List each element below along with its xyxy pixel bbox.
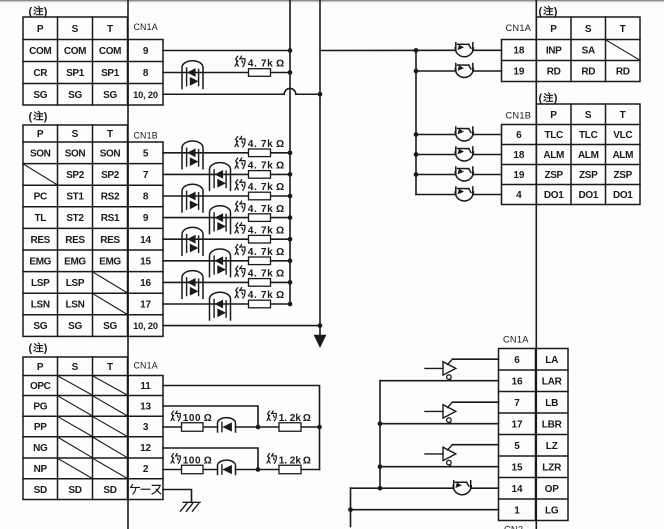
svg-text:SP2: SP2	[101, 170, 120, 181]
svg-text:CN1B: CN1B	[134, 131, 158, 141]
svg-text:RES: RES	[100, 235, 120, 246]
wire CN1A-3 PP row	[163, 426, 182, 428]
svg-text:(: (	[29, 6, 33, 18]
wire CN1B-15 input row	[163, 260, 249, 262]
bus wire: output common vertical (x=416)	[415, 50, 417, 194]
svg-text:SD: SD	[103, 485, 116, 496]
svg-text:4. 7k Ω: 4. 7k Ω	[248, 182, 285, 193]
connector table CN1A: signal-abbreviation table with pin numbers	[23, 343, 163, 500]
svg-text:15: 15	[140, 256, 151, 267]
junction node COM/bus290	[288, 48, 293, 53]
resistor approx 4.7k ohm (CN1B-17)	[249, 300, 271, 308]
junction node bus416/row19	[414, 69, 419, 74]
svg-text:2: 2	[143, 464, 149, 475]
svg-text:4: 4	[516, 190, 522, 201]
svg-text:OPC: OPC	[30, 381, 51, 392]
svg-text:CR: CR	[33, 68, 48, 79]
svg-text:14: 14	[511, 484, 523, 495]
wire CN1B-10,20 SG to bus320	[163, 325, 320, 327]
svg-text:COM: COM	[64, 46, 86, 57]
svg-text:1: 1	[514, 505, 520, 516]
junction node PG/PP row	[256, 425, 261, 430]
wire CN1A-9 COM to +bus	[163, 50, 290, 52]
svg-text:LG: LG	[545, 505, 559, 516]
junction node CN1B-16/bus290	[288, 280, 293, 285]
junction node SG/bus320	[318, 92, 323, 97]
svg-text:T: T	[107, 129, 113, 140]
junction node CN1B-15/bus290	[288, 258, 293, 263]
svg-text:4. 7k Ω: 4. 7k Ω	[248, 204, 285, 215]
svg-text:10, 20: 10, 20	[133, 90, 158, 100]
wire OP row	[351, 487, 454, 489]
svg-text:NP: NP	[34, 464, 48, 475]
svg-text:PG: PG	[33, 401, 47, 412]
svg-text:LSN: LSN	[66, 300, 85, 311]
svg-text:S: S	[72, 129, 79, 140]
wire CN1B-8 input row	[163, 195, 249, 197]
phototransistor output OP (CN1A-14)	[454, 481, 471, 489]
svg-text:SON: SON	[100, 148, 121, 159]
svg-text:100 Ω: 100 Ω	[183, 455, 213, 466]
svg-text:RS2: RS2	[101, 192, 120, 203]
junction node bus416/row19	[414, 172, 419, 177]
line driver LA/LAR	[425, 367, 443, 369]
wire CN1B-4 output row	[416, 194, 456, 196]
svg-text:LA: LA	[545, 355, 558, 366]
svg-text:): )	[44, 111, 48, 123]
svg-text:LZR: LZR	[542, 462, 562, 473]
resistor approx 4.7k ohm (CN1B-15)	[249, 257, 271, 265]
svg-text:17: 17	[140, 300, 151, 311]
svg-text:RD: RD	[581, 67, 595, 78]
svg-text:DO1: DO1	[544, 190, 564, 201]
photocoupler input CN1B-17	[210, 292, 231, 320]
wire CN1B-5 input row	[163, 152, 249, 154]
photocoupler input CN1B-5	[182, 141, 203, 169]
svg-text:EMG: EMG	[64, 256, 86, 267]
resistor approx 100 ohm (NP)	[182, 465, 204, 474]
wire CN1B-7 input row	[163, 173, 249, 175]
wire CN1A-8 (CR/SP1) input	[163, 72, 249, 74]
svg-text:S: S	[72, 362, 79, 373]
svg-text:18: 18	[513, 150, 525, 161]
svg-text:DO1: DO1	[613, 190, 633, 201]
svg-text:(: (	[539, 6, 543, 18]
svg-text:(: (	[539, 93, 543, 105]
svg-text:INP: INP	[546, 46, 562, 57]
svg-text:18: 18	[513, 46, 525, 57]
junction node LBR/bus380	[378, 421, 383, 426]
photocoupler input CN1B-8	[182, 184, 203, 212]
svg-text:PP: PP	[34, 422, 47, 433]
svg-text:SP2: SP2	[66, 170, 85, 181]
wire LG row (CN1A-1)	[351, 509, 499, 511]
connector boundary line left (CN1A/CN1B plug edge)	[127, 0, 129, 529]
svg-text:100 Ω: 100 Ω	[183, 413, 213, 424]
phototransistor output CN1B-6	[456, 127, 473, 135]
junction node CN1B-9/bus290	[288, 215, 293, 220]
wire OP to LG link	[350, 488, 352, 510]
svg-text:4. 7k Ω: 4. 7k Ω	[248, 290, 285, 301]
svg-text:OP: OP	[545, 484, 560, 495]
junction node SG2/bus320	[318, 323, 323, 328]
svg-text:6: 6	[516, 130, 522, 141]
ground (frame/shield)	[180, 502, 200, 511]
photocoupler input CN1A-8	[182, 61, 203, 89]
connector table CN1A bottom-right: encoder output pins	[499, 335, 569, 521]
svg-text:16: 16	[140, 278, 151, 289]
svg-text:CN1B: CN1B	[506, 111, 532, 121]
svg-text:TLC: TLC	[544, 130, 563, 141]
svg-text:SA: SA	[582, 46, 595, 57]
svg-text:12: 12	[140, 443, 151, 454]
connector table CN1A: signal-abbreviation table with pin numbers	[23, 6, 163, 105]
svg-text:SG: SG	[33, 90, 47, 101]
resistor approx 100 ohm (PP)	[182, 423, 204, 432]
svg-text:ALM: ALM	[543, 150, 564, 161]
resistor approx 1.2k ohm (NP)	[279, 465, 301, 474]
svg-text:9: 9	[143, 213, 149, 224]
wire CN1B-9 input row	[163, 217, 249, 219]
svg-text:4. 7k Ω: 4. 7k Ω	[248, 161, 285, 172]
svg-text:15: 15	[511, 462, 523, 473]
photocoupler input CN1B-15	[210, 249, 231, 277]
svg-text:6: 6	[514, 355, 520, 366]
phototransistor output CN1B-18	[456, 147, 473, 155]
junction node CN1B-17/bus290	[288, 302, 293, 307]
wire CN1B-16 input row	[163, 281, 249, 283]
junction node bus416/row18	[414, 48, 419, 53]
resistor approx 4.7k ohm (CN1B-14)	[249, 235, 271, 243]
phototransistor output CN1B-19	[456, 167, 473, 175]
wire CN1A-11 OPC to right bus	[163, 386, 320, 470]
svg-text:): )	[554, 93, 558, 105]
svg-text:COM: COM	[99, 46, 121, 57]
wire CN1B-17 input row	[163, 303, 249, 305]
svg-text:PC: PC	[34, 192, 47, 203]
svg-text:19: 19	[513, 170, 525, 181]
photocoupler input CN1B-14	[182, 227, 203, 255]
phototransistor output CN1B-4	[456, 187, 473, 195]
svg-text:SG: SG	[103, 321, 117, 332]
svg-text:ZSP: ZSP	[579, 170, 598, 181]
svg-text:S: S	[72, 24, 79, 35]
svg-text:16: 16	[511, 376, 523, 387]
wire CN1B-6 output row	[416, 134, 456, 136]
svg-text:7: 7	[143, 170, 149, 181]
svg-text:SG: SG	[68, 90, 82, 101]
line driver LB/LBR	[425, 410, 443, 412]
svg-text:CN1A: CN1A	[506, 23, 532, 33]
svg-text:1. 2k Ω: 1. 2k Ω	[279, 455, 311, 466]
phototransistor output CN1A-18 (INP/SA)	[456, 43, 473, 51]
svg-text:SD: SD	[68, 485, 81, 496]
connector boundary line right (CN1A/CN1B plug edge)	[535, 0, 537, 529]
svg-text:RES: RES	[30, 235, 50, 246]
svg-text:1. 2k Ω: 1. 2k Ω	[279, 413, 311, 424]
svg-text:S: S	[585, 24, 592, 35]
svg-text:8: 8	[143, 192, 149, 203]
resistor approx 4.7k ohm (CN1B-5)	[249, 149, 271, 157]
arrow terminal (down) on SG bus	[314, 335, 327, 348]
svg-text:7: 7	[514, 398, 520, 409]
junction node bus416/row6	[414, 132, 419, 137]
svg-text:10, 20: 10, 20	[133, 321, 158, 331]
wire CN1B-14 input row	[163, 238, 249, 240]
junction node CN1B-8/bus290	[288, 194, 293, 199]
svg-text:14: 14	[140, 235, 151, 246]
wire COM bus to output common (y=50)	[320, 49, 456, 51]
junction node bus416/row18	[414, 152, 419, 157]
svg-text:): )	[554, 6, 558, 18]
svg-text:P: P	[37, 24, 44, 35]
svg-text:COM: COM	[29, 46, 51, 57]
svg-text:T: T	[107, 24, 113, 35]
svg-text:19: 19	[513, 67, 525, 78]
svg-text:3: 3	[143, 422, 149, 433]
resistor approx 4.7k ohm (CN1A-8)	[249, 69, 271, 77]
svg-text:RD: RD	[616, 67, 630, 78]
svg-text:SP1: SP1	[66, 68, 85, 79]
svg-text:SG: SG	[33, 321, 47, 332]
svg-text:ALM: ALM	[612, 150, 633, 161]
svg-text:P: P	[550, 110, 557, 121]
svg-text:9: 9	[143, 46, 149, 57]
resistor approx 4.7k ohm (CN1B-8)	[249, 192, 271, 200]
svg-text:RES: RES	[65, 235, 85, 246]
svg-text:LBR: LBR	[542, 419, 563, 430]
svg-text:ZSP: ZSP	[614, 170, 633, 181]
svg-text:17: 17	[511, 419, 523, 430]
resistor approx 4.7k ohm (CN1B-16)	[249, 279, 271, 287]
wire CN1B-18 output row	[416, 154, 456, 156]
svg-text:T: T	[620, 24, 626, 35]
bus wire: input common bus (x=290)	[289, 0, 291, 304]
svg-text:TL: TL	[34, 213, 46, 224]
svg-text:ZSP: ZSP	[544, 170, 563, 181]
diode NP input	[218, 460, 236, 474]
svg-text:4. 7k Ω: 4. 7k Ω	[248, 225, 285, 236]
junction node CN1B-7/bus290	[288, 172, 293, 177]
svg-text:T: T	[620, 110, 626, 121]
svg-text:NG: NG	[33, 443, 48, 454]
svg-text:LSP: LSP	[31, 278, 50, 289]
connector table CN1B: output signal table with pin numbers	[502, 93, 641, 205]
svg-text:LSP: LSP	[66, 278, 85, 289]
photocoupler input CN1B-16	[182, 271, 203, 299]
svg-text:5: 5	[143, 148, 149, 159]
junction node CN1B-5/bus290	[288, 150, 293, 155]
svg-text:DO1: DO1	[578, 190, 598, 201]
svg-text:LZ: LZ	[546, 441, 558, 452]
resistor approx 4.7k ohm (CN1B-9)	[249, 214, 271, 222]
svg-text:CN1A: CN1A	[134, 361, 158, 371]
svg-text:4. 7k Ω: 4. 7k Ω	[248, 269, 285, 280]
wire CN1A-12 NG branch	[163, 448, 258, 470]
phototransistor output CN1A-19 (RD)	[456, 64, 473, 72]
wire LG down to CN2 (clipped)	[350, 510, 352, 527]
svg-text:RD: RD	[547, 67, 561, 78]
svg-text:SON: SON	[65, 148, 86, 159]
svg-text:): )	[44, 6, 48, 18]
junction node LG	[348, 507, 353, 512]
bus wire: SG/common bus (x=320) with arrow terminal	[319, 0, 321, 336]
junction node CN1B-14/bus290	[288, 237, 293, 242]
svg-text:P: P	[37, 129, 44, 140]
wire SD shield to ground	[163, 490, 192, 503]
line driver LZ/LZR	[425, 453, 443, 455]
junction node NG/NP row	[256, 467, 261, 472]
svg-text:SON: SON	[30, 148, 51, 159]
junction node LZR/bus380	[378, 464, 383, 469]
wire to pin CN1A-18	[473, 49, 502, 51]
svg-text:ALM: ALM	[578, 150, 599, 161]
svg-text:4. 7k Ω: 4. 7k Ω	[248, 247, 285, 258]
connector table CN1B: signal-abbreviation table with pin numbers	[23, 111, 163, 337]
svg-text:LB: LB	[545, 398, 558, 409]
svg-text:11: 11	[140, 381, 151, 392]
resistor approx 1.2k ohm (PP)	[279, 423, 301, 432]
svg-text:SD: SD	[34, 485, 47, 496]
wire CN1A-10,20 SG with crossover hop at bus290	[163, 88, 320, 94]
svg-text:P: P	[550, 24, 557, 35]
svg-text:SP1: SP1	[101, 68, 120, 79]
svg-text:): )	[44, 343, 48, 355]
svg-text:8: 8	[143, 68, 149, 79]
svg-text:EMG: EMG	[99, 256, 121, 267]
svg-text:LAR: LAR	[542, 376, 563, 387]
connector table CN1A: output signal table with pin numbers	[502, 6, 641, 82]
photocoupler input CN1B-7	[210, 163, 231, 191]
svg-text:ST2: ST2	[66, 213, 84, 224]
svg-text:(: (	[29, 343, 33, 355]
svg-text:P: P	[37, 362, 44, 373]
svg-text:5: 5	[514, 441, 520, 452]
svg-text:SG: SG	[68, 321, 82, 332]
wire CN1A-18 output row	[416, 70, 456, 72]
svg-text:EMG: EMG	[29, 256, 51, 267]
svg-text:VLC: VLC	[613, 130, 632, 141]
junction node PP/right bus	[317, 425, 322, 430]
svg-text:LSN: LSN	[31, 300, 50, 311]
svg-text:RS1: RS1	[101, 213, 120, 224]
svg-text:CN1A: CN1A	[503, 335, 529, 345]
svg-text:SG: SG	[103, 90, 117, 101]
photocoupler input CN1B-9	[210, 206, 231, 234]
svg-text:TLC: TLC	[579, 130, 598, 141]
junction node CN1A-8/bus290	[288, 70, 293, 75]
svg-text:(: (	[29, 111, 33, 123]
junction node OP/bus380	[378, 486, 383, 491]
svg-text:13: 13	[140, 401, 151, 412]
svg-text:S: S	[585, 110, 592, 121]
wire CN1A-13 PG branch	[163, 406, 258, 427]
svg-text:CN2: CN2	[504, 525, 523, 529]
diode PP input	[218, 418, 236, 432]
svg-text:4. 7k Ω: 4. 7k Ω	[248, 139, 285, 150]
bus wire: differential return bus (x=380)	[379, 381, 381, 489]
svg-text:ST1: ST1	[66, 192, 84, 203]
resistor approx 4.7k ohm (CN1B-7)	[249, 171, 271, 179]
wire CN1A-2 NP row	[163, 469, 182, 471]
svg-text:CN1A: CN1A	[134, 22, 158, 32]
svg-text:4. 7k Ω: 4. 7k Ω	[248, 59, 285, 70]
svg-text:T: T	[107, 362, 113, 373]
wire CN1B-19 output row	[416, 174, 456, 176]
